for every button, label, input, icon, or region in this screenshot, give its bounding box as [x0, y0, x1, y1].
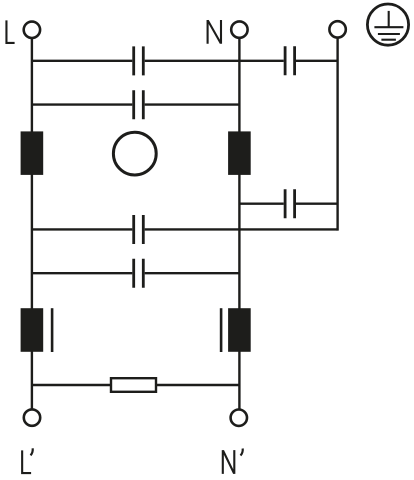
wire row4 left	[32, 272, 132, 274]
wire row2 left	[32, 103, 132, 105]
terminal L'	[24, 409, 40, 425]
wire row1 mid	[145, 60, 284, 62]
inductor winding L2b	[228, 308, 251, 352]
wire bottom rail right	[156, 384, 239, 386]
protective earth symbol	[367, 4, 408, 45]
wire row3 left	[32, 228, 132, 230]
capacitor C3	[134, 90, 144, 119]
wire row3 right	[145, 228, 338, 230]
inductor core line right	[220, 308, 223, 352]
terminal N'	[231, 410, 247, 426]
capacitor C1	[134, 46, 144, 75]
terminal L	[24, 22, 40, 38]
capacitor C5	[134, 215, 144, 244]
choke winding L1a	[21, 131, 44, 175]
wire row1 right	[296, 60, 338, 62]
choke winding L1b	[228, 131, 251, 175]
label L	[6, 20, 14, 43]
wire bottom rail left	[32, 384, 111, 386]
label L'	[22, 450, 31, 473]
wire N vertical	[238, 38, 240, 410]
resistor R1	[111, 378, 156, 392]
inductor winding L2a	[21, 308, 44, 352]
wire L vertical	[31, 38, 33, 409]
label N'	[223, 450, 235, 474]
wire E vertical	[336, 38, 338, 231]
terminal N	[231, 21, 247, 37]
label N	[208, 20, 221, 44]
wire ycap right	[296, 202, 338, 204]
capacitor C6	[134, 259, 144, 288]
terminal E	[329, 21, 345, 37]
capacitor C2	[285, 46, 295, 75]
capacitor C4	[285, 189, 295, 218]
wire row1 left	[32, 60, 132, 62]
wire ycap left	[239, 202, 283, 204]
wire row4 right	[145, 272, 240, 274]
inductor core line left	[51, 308, 54, 352]
wire row2 right	[145, 103, 240, 105]
choke core circle	[113, 132, 156, 175]
